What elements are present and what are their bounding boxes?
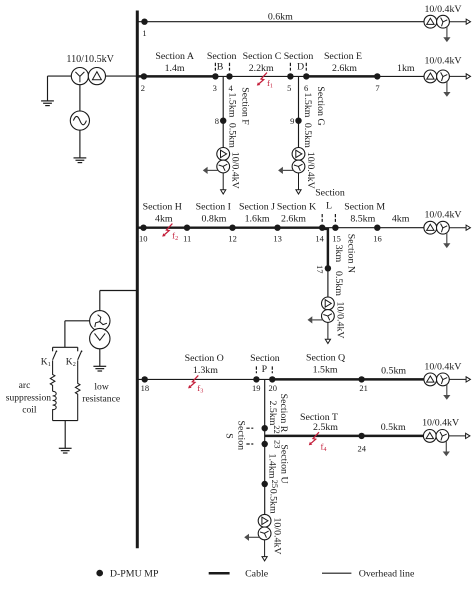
svg-text:Section U: Section U bbox=[279, 444, 290, 483]
node 24 bbox=[358, 433, 364, 439]
svg-text:10/0.4kV: 10/0.4kV bbox=[424, 56, 462, 67]
svg-text:11: 11 bbox=[183, 234, 191, 244]
svg-text:Section: Section bbox=[235, 420, 246, 450]
legend D-PMU MP symbol bbox=[96, 570, 103, 577]
wire feeder4 overhead sections O-P bbox=[137, 378, 272, 380]
wire feeder2 cable section E bbox=[306, 75, 377, 77]
svg-text:25: 25 bbox=[270, 480, 280, 489]
AC source G1 bbox=[70, 111, 89, 130]
node 25 bbox=[262, 481, 268, 487]
switch Section D ticks bbox=[290, 63, 306, 71]
svg-text:3: 3 bbox=[213, 83, 217, 93]
node 21 bbox=[358, 376, 364, 382]
svg-text:7: 7 bbox=[375, 83, 379, 93]
legend overhead symbol bbox=[322, 572, 351, 574]
fault f4 bbox=[309, 432, 319, 445]
svg-text:0.5km: 0.5km bbox=[227, 123, 238, 148]
switch K2 bbox=[78, 347, 83, 360]
svg-text:9: 9 bbox=[290, 116, 294, 126]
grounding transformer TZ (zigzag) bbox=[90, 311, 110, 349]
svg-text:4km: 4km bbox=[392, 213, 410, 224]
svg-text:10/0.4kV: 10/0.4kV bbox=[424, 4, 462, 15]
svg-text:Section J: Section J bbox=[239, 202, 275, 213]
svg-text:10/0.4kV: 10/0.4kV bbox=[422, 418, 460, 429]
wire section N cable bbox=[322, 229, 328, 268]
svg-text:110/10.5kV: 110/10.5kV bbox=[66, 54, 114, 65]
wire TZ to K switches bbox=[65, 321, 90, 348]
svg-text:8.5km: 8.5km bbox=[350, 213, 375, 224]
svg-text:3km: 3km bbox=[333, 245, 344, 263]
svg-text:10/0.4kV: 10/0.4kV bbox=[305, 152, 316, 190]
svg-text:P: P bbox=[262, 364, 268, 375]
svg-text:14: 14 bbox=[315, 234, 324, 244]
svg-text:B: B bbox=[217, 61, 224, 72]
svg-text:2.2km: 2.2km bbox=[249, 63, 274, 74]
node 2 bbox=[141, 73, 147, 79]
transformer feeder3 10/0.4kV bbox=[424, 221, 471, 248]
ground (HV neutral) bbox=[41, 101, 54, 106]
bus (10.5kV busbar) bbox=[136, 11, 139, 549]
svg-text:L: L bbox=[326, 201, 332, 212]
wire K top bar bbox=[53, 346, 78, 348]
svg-text:17: 17 bbox=[315, 265, 325, 274]
node 9 bbox=[295, 118, 301, 124]
node 18 bbox=[142, 376, 148, 382]
wire section T cable + 0.5km bbox=[265, 435, 424, 437]
label arc suppression coil bbox=[6, 380, 52, 415]
svg-text:1.4km: 1.4km bbox=[267, 454, 278, 479]
wire section F overhead bbox=[222, 76, 224, 147]
transformer section T 10/0.4kV bbox=[423, 430, 470, 457]
svg-text:19: 19 bbox=[252, 383, 261, 393]
node 1 bbox=[141, 19, 147, 25]
svg-text:6: 6 bbox=[304, 83, 308, 93]
node 10 bbox=[140, 225, 146, 231]
svg-text:0.5km: 0.5km bbox=[333, 271, 344, 296]
node 22 bbox=[262, 425, 268, 431]
svg-text:20: 20 bbox=[269, 383, 278, 393]
switch Section P ticks bbox=[256, 366, 272, 373]
wire T1 to source bbox=[79, 85, 81, 111]
svg-text:Section M: Section M bbox=[344, 202, 385, 213]
svg-text:10/0.4kV: 10/0.4kV bbox=[424, 362, 462, 373]
svg-text:1.5km: 1.5km bbox=[313, 364, 338, 375]
wire feeder2 cable section A bbox=[137, 75, 215, 77]
ground (TZ neutral) bbox=[93, 366, 106, 371]
svg-text:8: 8 bbox=[215, 116, 219, 126]
svg-text:Section A: Section A bbox=[155, 51, 195, 62]
svg-text:Section: Section bbox=[284, 51, 314, 62]
label low resistance bbox=[82, 382, 120, 405]
svg-text:0.5km: 0.5km bbox=[302, 123, 313, 148]
arc suppression coil L1 (winding) bbox=[53, 391, 57, 420]
svg-text:2.5km: 2.5km bbox=[267, 401, 278, 426]
svg-text:Section R: Section R bbox=[278, 394, 289, 433]
node 20 bbox=[269, 376, 275, 382]
transformer T1 110/10.5kV bbox=[71, 68, 105, 85]
svg-text:0.6km: 0.6km bbox=[268, 11, 293, 22]
svg-text:Section I: Section I bbox=[196, 202, 231, 213]
node 5 bbox=[287, 73, 293, 79]
svg-text:0.5km: 0.5km bbox=[381, 366, 406, 377]
legend cable symbol bbox=[209, 572, 230, 575]
svg-text:4: 4 bbox=[228, 83, 233, 93]
ground (K branch) bbox=[59, 448, 72, 453]
fault f1 bbox=[257, 73, 267, 86]
svg-text:Section O: Section O bbox=[185, 353, 224, 364]
wire sections R-S-U overhead bbox=[264, 379, 266, 514]
svg-text:1.5km: 1.5km bbox=[302, 93, 313, 118]
transformer section U 10/0.4kV bbox=[244, 514, 271, 561]
svg-text:Section: Section bbox=[250, 353, 280, 364]
svg-text:21: 21 bbox=[359, 383, 368, 393]
svg-text:0.8km: 0.8km bbox=[202, 213, 227, 224]
svg-text:arc: arc bbox=[19, 380, 31, 391]
node 15 bbox=[332, 225, 338, 231]
node 4 bbox=[226, 73, 232, 79]
node 17 bbox=[325, 265, 331, 271]
wire feeder2 overhead sections B-C-D bbox=[215, 75, 424, 77]
wire T1 to bus bbox=[106, 75, 138, 77]
switch Section L ticks bbox=[322, 214, 335, 222]
node 23 bbox=[262, 441, 268, 447]
wire K bottom bar bbox=[53, 420, 78, 422]
resistor R1 (low resistance) bbox=[75, 360, 80, 420]
ground (source) bbox=[74, 158, 87, 163]
node 13 bbox=[274, 225, 280, 231]
wire feeder3 cable sections H-I-J-K bbox=[137, 226, 322, 228]
svg-text:0.5km: 0.5km bbox=[381, 422, 406, 433]
svg-text:10/0.4kV: 10/0.4kV bbox=[271, 517, 282, 555]
svg-text:D: D bbox=[297, 61, 304, 72]
svg-text:2: 2 bbox=[141, 83, 145, 93]
wire to ground (K branch) bbox=[64, 421, 66, 449]
transformer feeder2 10/0.4kV bbox=[424, 70, 471, 97]
switch Section S ticks bbox=[246, 428, 253, 444]
wire section G overhead bbox=[298, 76, 300, 147]
svg-text:Cable: Cable bbox=[245, 568, 269, 579]
svg-text:Section: Section bbox=[315, 187, 345, 198]
svg-text:Section Q: Section Q bbox=[306, 352, 345, 363]
svg-text:10/0.4kV: 10/0.4kV bbox=[424, 209, 462, 220]
svg-text:Section F: Section F bbox=[240, 87, 251, 125]
wire feeder1 overhead 0.6km bbox=[137, 21, 424, 23]
svg-text:Section H: Section H bbox=[143, 202, 182, 213]
wire feeder4 cable section Q + 0.5km bbox=[272, 378, 424, 380]
node 12 bbox=[229, 225, 235, 231]
transformer section G 10/0.4kV bbox=[278, 148, 305, 195]
svg-text:1: 1 bbox=[142, 28, 146, 38]
svg-text:resistance: resistance bbox=[82, 393, 120, 404]
svg-text:2.6km: 2.6km bbox=[332, 63, 357, 74]
svg-text:Section G: Section G bbox=[315, 86, 326, 125]
svg-text:4km: 4km bbox=[155, 213, 173, 224]
node 7 bbox=[374, 73, 380, 79]
node 8 bbox=[220, 118, 226, 124]
svg-text:low: low bbox=[94, 382, 108, 393]
transformer section F 10/0.4kV bbox=[203, 148, 230, 194]
svg-text:Section E: Section E bbox=[324, 51, 362, 62]
svg-text:1.3km: 1.3km bbox=[193, 365, 218, 376]
svg-text:Section C: Section C bbox=[243, 51, 282, 62]
svg-text:15: 15 bbox=[332, 234, 341, 244]
node 19 bbox=[253, 376, 259, 382]
switch K1 bbox=[53, 347, 58, 360]
wire section N overhead 0.5km bbox=[327, 268, 329, 297]
transformer section N 10/0.4kV bbox=[308, 297, 335, 344]
svg-text:10: 10 bbox=[139, 234, 148, 244]
svg-text:1.4m: 1.4m bbox=[165, 63, 185, 74]
svg-text:coil: coil bbox=[22, 405, 37, 416]
svg-text:16: 16 bbox=[373, 234, 382, 244]
svg-text:suppression: suppression bbox=[6, 392, 52, 403]
svg-text:1.5km: 1.5km bbox=[227, 93, 238, 118]
svg-text:Section N: Section N bbox=[346, 234, 357, 273]
svg-text:18: 18 bbox=[141, 383, 150, 393]
svg-text:1km: 1km bbox=[397, 63, 415, 74]
svg-text:S: S bbox=[224, 433, 235, 439]
svg-text:D-PMU MP: D-PMU MP bbox=[110, 568, 159, 579]
svg-text:Section: Section bbox=[207, 51, 237, 62]
svg-text:2.5km: 2.5km bbox=[313, 422, 338, 433]
svg-text:12: 12 bbox=[228, 234, 237, 244]
switch Section B ticks bbox=[215, 63, 229, 71]
wire feeder3 overhead sections L-M and 4km bbox=[322, 227, 424, 229]
wire main transformer to ground bbox=[48, 76, 72, 101]
node 3 bbox=[212, 73, 218, 79]
svg-text:24: 24 bbox=[358, 444, 367, 454]
svg-text:0.5km: 0.5km bbox=[268, 489, 279, 514]
node 16 bbox=[374, 225, 380, 231]
fault f3 bbox=[188, 375, 198, 388]
node 14 bbox=[319, 225, 325, 231]
svg-text:13: 13 bbox=[273, 234, 282, 244]
transformer feeder1 10/0.4kV bbox=[424, 15, 471, 42]
wire TZ to ground bbox=[99, 349, 101, 367]
svg-text:1.6km: 1.6km bbox=[245, 213, 270, 224]
svg-text:Overhead line: Overhead line bbox=[359, 568, 415, 579]
svg-text:5: 5 bbox=[287, 83, 291, 93]
node 6 bbox=[303, 73, 309, 79]
svg-text:10/0.4kV: 10/0.4kV bbox=[335, 301, 346, 339]
node 11 bbox=[184, 225, 190, 231]
transformer feeder4 10/0.4kV bbox=[424, 373, 471, 400]
fault f2 bbox=[162, 224, 172, 237]
arc suppression coil L1 (switch lead + zigzag) bbox=[50, 360, 55, 391]
svg-text:10/0.4kV: 10/0.4kV bbox=[230, 152, 241, 190]
wire source to ground bbox=[79, 130, 81, 158]
svg-text:Section K: Section K bbox=[277, 202, 317, 213]
svg-text:2.6km: 2.6km bbox=[281, 213, 306, 224]
wire bus to grounding transformer bbox=[100, 291, 138, 311]
